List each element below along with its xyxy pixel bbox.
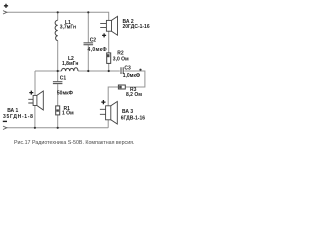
- svg-text:1,8мГн: 1,8мГн: [62, 61, 78, 67]
- svg-text:C1: C1: [60, 75, 67, 81]
- svg-text:ВА 3: ВА 3: [122, 109, 133, 115]
- svg-text:C3: C3: [124, 65, 131, 71]
- svg-text:C2: C2: [90, 37, 97, 43]
- svg-text:1 Ом: 1 Ом: [62, 110, 74, 116]
- svg-text:4,0мкФ: 4,0мкФ: [88, 47, 108, 53]
- svg-text:3,0 Ом: 3,0 Ом: [113, 57, 129, 63]
- svg-text:ВА 1: ВА 1: [7, 108, 18, 114]
- svg-text:Рис.17 Радиотехника S-50В. Ко: Рис.17 Радиотехника S-50В. Компактная ве…: [14, 140, 135, 146]
- svg-text:3,7мГн: 3,7мГн: [60, 25, 76, 31]
- svg-text:20ГДС-1-16: 20ГДС-1-16: [123, 24, 150, 30]
- svg-text:6ГДВ-1-16: 6ГДВ-1-16: [121, 115, 146, 121]
- svg-text:35ГДН-1-8: 35ГДН-1-8: [3, 114, 34, 120]
- svg-text:50мкФ: 50мкФ: [57, 91, 74, 97]
- svg-text:8,2 Ом: 8,2 Ом: [126, 92, 142, 98]
- svg-text:1,0мкФ: 1,0мкФ: [123, 73, 141, 79]
